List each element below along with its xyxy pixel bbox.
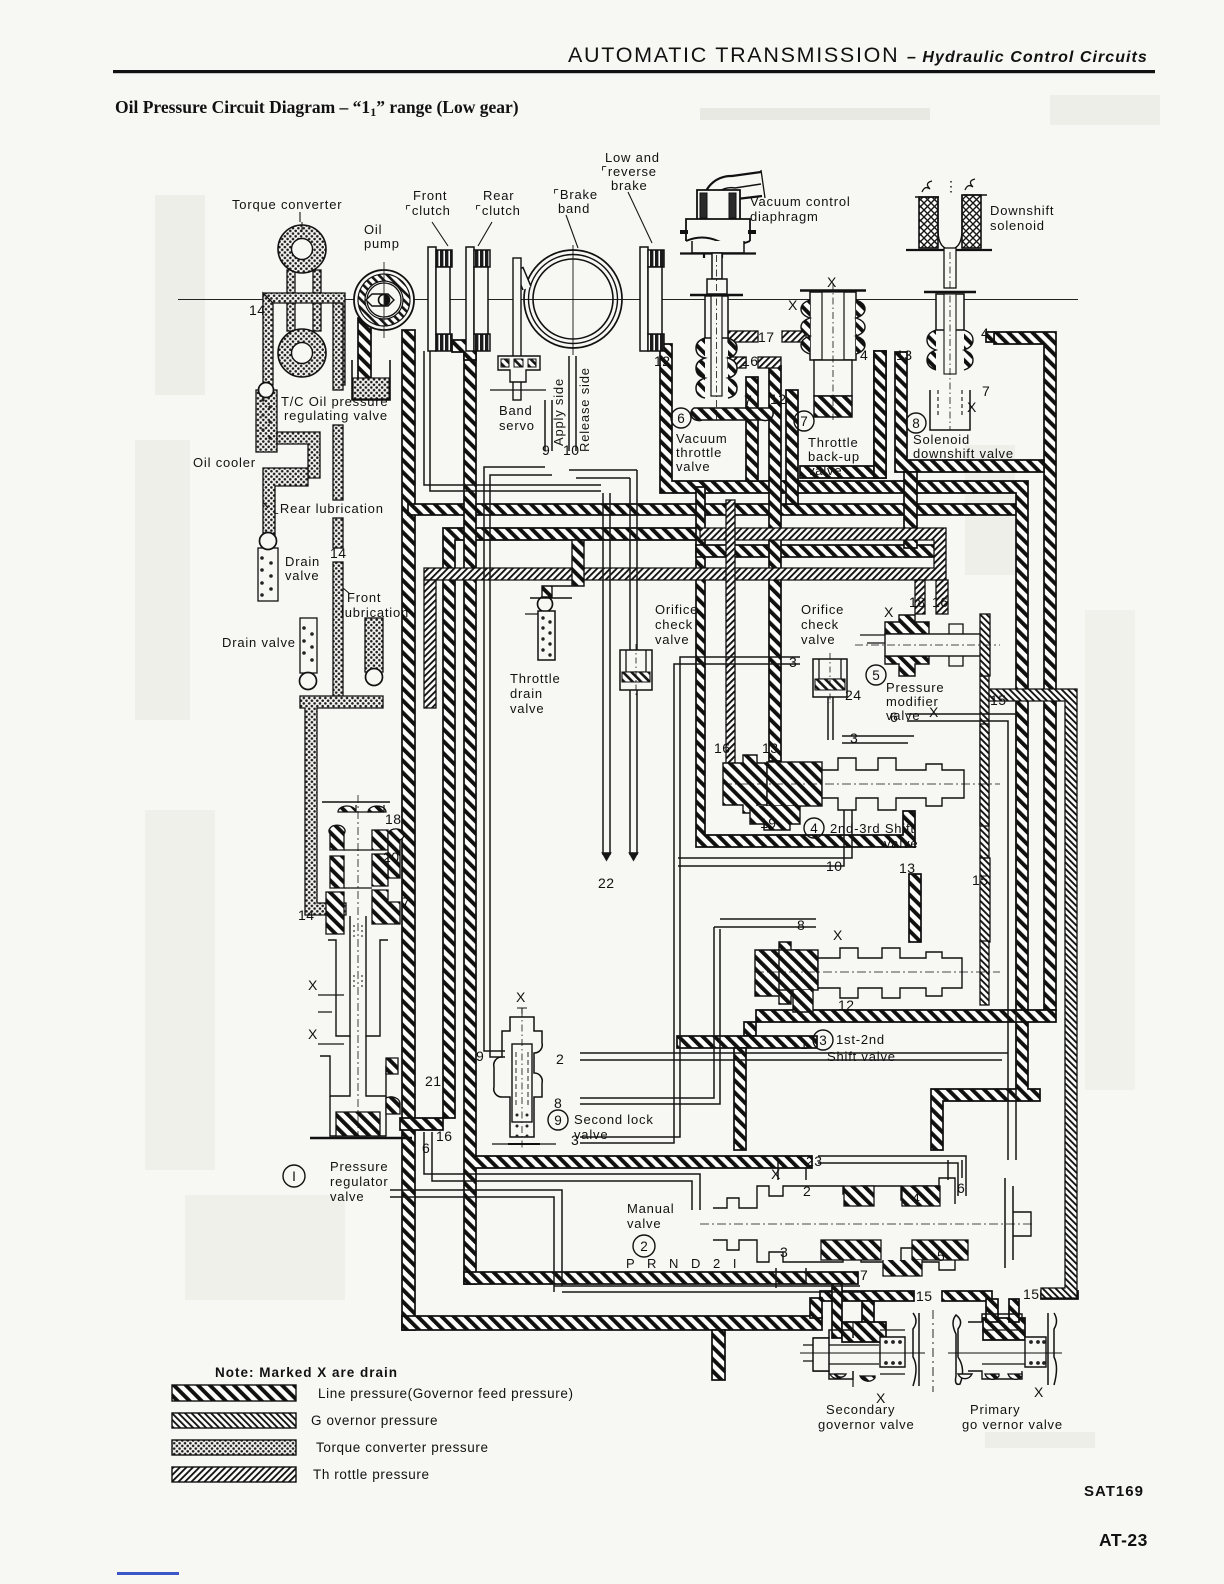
svg-text:X: X	[788, 297, 798, 313]
svg-text:X: X	[308, 977, 318, 993]
svg-text:7: 7	[402, 894, 410, 910]
svg-text:Release side: Release side	[577, 367, 592, 452]
svg-text:8: 8	[912, 416, 920, 431]
svg-text:4: 4	[860, 347, 868, 363]
svg-text:8: 8	[554, 1095, 562, 1111]
svg-text:1: 1	[800, 1036, 808, 1052]
svg-text:12: 12	[770, 391, 787, 407]
svg-text:Rear: Rear	[483, 188, 514, 203]
svg-text:Pressure: Pressure	[886, 680, 944, 695]
svg-text:Solenoid: Solenoid	[913, 432, 970, 447]
svg-text:6: 6	[677, 411, 685, 426]
svg-text:Torque converter pressure: Torque converter pressure	[316, 1440, 489, 1455]
svg-text:10: 10	[826, 858, 843, 874]
svg-text:3: 3	[819, 1033, 827, 1048]
svg-text:3: 3	[571, 1132, 579, 1148]
svg-text:2: 2	[556, 1051, 564, 1067]
svg-text:16: 16	[436, 1128, 453, 1144]
svg-text:21: 21	[425, 1073, 442, 1089]
svg-text:16: 16	[714, 740, 731, 756]
svg-text:Vacuum: Vacuum	[676, 431, 728, 446]
svg-text:Drain: Drain	[285, 554, 320, 569]
svg-text:8: 8	[797, 917, 805, 933]
svg-text:Oil cooler: Oil cooler	[193, 455, 256, 470]
svg-text:valve: valve	[627, 1216, 661, 1231]
svg-text:X: X	[967, 399, 977, 415]
svg-text:6: 6	[890, 709, 898, 725]
svg-text:⌜clutch: ⌜clutch	[405, 203, 451, 218]
svg-text:throttle: throttle	[676, 445, 722, 460]
svg-text:16: 16	[742, 353, 759, 369]
svg-text:valve: valve	[801, 632, 835, 647]
svg-text:6: 6	[957, 1180, 965, 1196]
svg-text:AUTOMATIC TRANSMISSION: AUTOMATIC TRANSMISSION	[568, 43, 899, 67]
svg-text:X: X	[771, 1166, 781, 1182]
svg-text:Downshift: Downshift	[990, 203, 1054, 218]
svg-text:valve: valve	[808, 463, 842, 478]
svg-text:Orifice: Orifice	[801, 602, 844, 617]
svg-text:4: 4	[810, 821, 818, 836]
svg-text:valve: valve	[655, 632, 689, 647]
svg-text:X: X	[833, 927, 843, 943]
svg-text:18: 18	[385, 811, 402, 827]
svg-text:governor valve: governor valve	[818, 1417, 914, 1432]
svg-text:X: X	[884, 604, 894, 620]
svg-text:⌜reverse: ⌜reverse	[601, 164, 657, 179]
svg-text:2: 2	[640, 1239, 648, 1254]
svg-text:Vacuum control: Vacuum control	[750, 194, 851, 209]
svg-text:15: 15	[1023, 1286, 1040, 1302]
svg-text:regulating valve: regulating valve	[284, 408, 388, 423]
svg-text:Drain valve: Drain valve	[222, 635, 296, 650]
svg-text:4: 4	[912, 1190, 920, 1206]
svg-text:I: I	[292, 1169, 296, 1184]
svg-text:14: 14	[298, 907, 315, 923]
svg-text:6: 6	[422, 1140, 430, 1156]
svg-text:X: X	[1034, 1384, 1044, 1400]
svg-text:AT-23: AT-23	[1099, 1530, 1148, 1550]
svg-text:17: 17	[758, 329, 775, 345]
svg-text:3: 3	[780, 1244, 788, 1260]
svg-text:12: 12	[838, 997, 855, 1013]
svg-text:G overnor pressure: G overnor pressure	[311, 1413, 438, 1428]
svg-text:Oil: Oil	[364, 222, 382, 237]
svg-text:20: 20	[383, 849, 400, 865]
svg-text:14: 14	[330, 545, 347, 561]
svg-text:X: X	[929, 704, 939, 720]
svg-text:22: 22	[598, 875, 615, 891]
svg-text:10: 10	[563, 442, 580, 458]
svg-text:Pressure: Pressure	[330, 1159, 388, 1174]
svg-text:Front: Front	[347, 590, 381, 605]
svg-text:go vernor valve: go vernor valve	[962, 1417, 1063, 1432]
svg-text:16: 16	[932, 594, 949, 610]
svg-text:⋮: ⋮	[944, 178, 958, 194]
svg-text:3: 3	[789, 654, 797, 670]
svg-text:solenoid: solenoid	[990, 218, 1045, 233]
svg-text:valve: valve	[510, 701, 544, 716]
svg-text:SAT169: SAT169	[1084, 1483, 1144, 1500]
svg-text:15: 15	[972, 872, 989, 888]
svg-text:Throttle: Throttle	[510, 671, 560, 686]
svg-text:valve: valve	[330, 1189, 364, 1204]
svg-text:Manual: Manual	[627, 1201, 674, 1216]
svg-text:7: 7	[860, 1267, 868, 1283]
svg-text:15: 15	[990, 692, 1007, 708]
svg-text:T/C Oil pressure: T/C Oil pressure	[281, 394, 388, 409]
svg-text:12: 12	[654, 353, 671, 369]
svg-text:regulator: regulator	[330, 1174, 389, 1189]
svg-text:18: 18	[909, 594, 926, 610]
svg-text:Line pressure(Governor feed pr: Line pressure(Governor feed pressure)	[318, 1386, 574, 1401]
svg-text:7: 7	[982, 383, 990, 399]
svg-text:13: 13	[899, 860, 916, 876]
svg-text:Torque converter: Torque converter	[232, 197, 342, 212]
svg-text:23: 23	[806, 1153, 823, 1169]
svg-text:13: 13	[896, 347, 913, 363]
svg-text:7: 7	[744, 392, 752, 408]
svg-text:Apply side: Apply side	[551, 378, 566, 446]
svg-text:4: 4	[981, 325, 989, 341]
svg-text:19: 19	[760, 815, 777, 831]
svg-text:Th rottle pressure: Th rottle pressure	[313, 1467, 430, 1482]
svg-text:9: 9	[542, 442, 550, 458]
svg-text:⌜clutch: ⌜clutch	[475, 203, 521, 218]
svg-text:X: X	[827, 274, 837, 290]
svg-text:15: 15	[916, 1288, 933, 1304]
svg-text:downshift valve: downshift valve	[913, 446, 1014, 461]
svg-text:X: X	[876, 1390, 886, 1406]
svg-text:Low and: Low and	[605, 150, 660, 165]
svg-text:13: 13	[762, 740, 779, 756]
svg-text:X: X	[308, 1026, 318, 1042]
svg-text:3: 3	[850, 730, 858, 746]
svg-text:X: X	[516, 989, 526, 1005]
svg-text:Note: Marked X are drain: Note: Marked X are drain	[215, 1365, 398, 1380]
svg-text:valve: valve	[676, 459, 710, 474]
svg-text:drain: drain	[510, 686, 543, 701]
svg-text:9: 9	[476, 1048, 484, 1064]
svg-text:pump: pump	[364, 236, 400, 251]
svg-text:Primary: Primary	[970, 1402, 1020, 1417]
svg-text:Throttle: Throttle	[808, 435, 858, 450]
svg-text:servo: servo	[499, 418, 535, 433]
svg-text:valve: valve	[884, 836, 918, 851]
svg-text:back-up: back-up	[808, 449, 860, 464]
svg-text:7: 7	[800, 414, 808, 429]
svg-text:band: band	[558, 201, 590, 216]
svg-text:Front: Front	[413, 188, 447, 203]
svg-text:P R N D 2 I: P R N D 2 I	[626, 1256, 741, 1271]
svg-text:– Hydraulic Control Circuits: – Hydraulic Control Circuits	[907, 49, 1147, 66]
svg-text:5: 5	[872, 668, 880, 683]
svg-text:⌜Brake: ⌜Brake	[553, 187, 598, 202]
svg-text:⌞Rear lubrication: ⌞Rear lubrication	[273, 501, 384, 516]
svg-text:Second lock: Second lock	[574, 1112, 654, 1127]
svg-text:9: 9	[554, 1113, 562, 1128]
svg-text:Orifice: Orifice	[655, 602, 698, 617]
svg-text:14: 14	[249, 302, 266, 318]
svg-text:5: 5	[937, 1248, 945, 1264]
svg-text:Shift valve: Shift valve	[827, 1049, 896, 1064]
svg-text:diaphragm: diaphragm	[750, 209, 819, 224]
svg-text:Band: Band	[499, 403, 533, 418]
svg-text:lubrication: lubrication	[341, 605, 409, 620]
svg-text:2nd-3rd Shift: 2nd-3rd Shift	[830, 821, 915, 836]
svg-text:1st-2nd: 1st-2nd	[836, 1032, 885, 1047]
svg-text:check: check	[655, 617, 693, 632]
svg-text:24: 24	[845, 687, 862, 703]
svg-text:valve: valve	[285, 568, 319, 583]
svg-text:Oil Pressure Circuit Diagram –: Oil Pressure Circuit Diagram – “11” rang…	[115, 97, 519, 119]
svg-text:brake: brake	[611, 178, 648, 193]
svg-text:2: 2	[803, 1183, 811, 1199]
svg-text:check: check	[801, 617, 839, 632]
